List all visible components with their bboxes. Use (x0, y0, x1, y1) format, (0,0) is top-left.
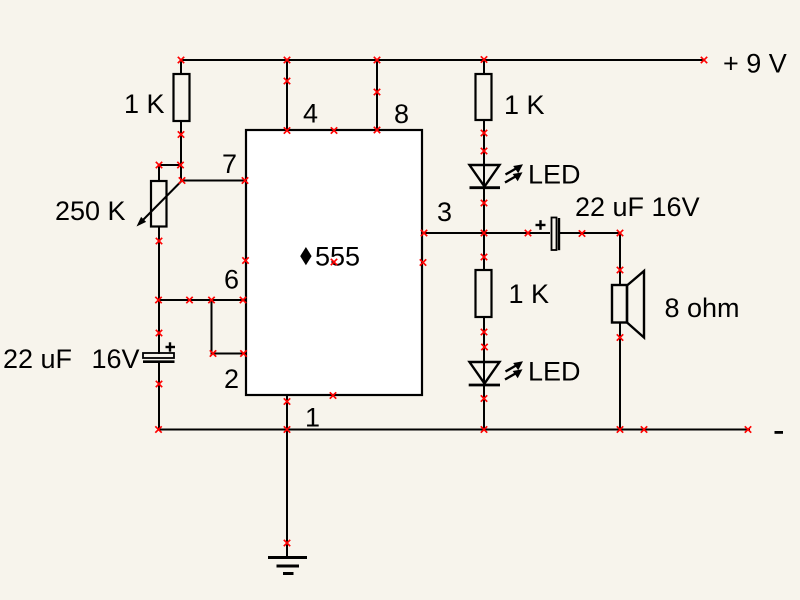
svg-text:8 ohm: 8 ohm (665, 293, 740, 323)
capacitor C1 top plate (143, 353, 174, 358)
wire top supply rail (181, 59, 703, 61)
label C2 value 22 uF 16V (575, 192, 700, 222)
capacitor C1 22uF plus sign (166, 342, 176, 351)
label R4 value 1 K (509, 279, 550, 309)
wire pin 1 to ground symbol (286, 395, 288, 558)
label R1 value 1 K (124, 89, 165, 119)
wire R3 bottom through LED1 to pin3 node (483, 120, 485, 233)
svg-text:6: 6 (224, 265, 239, 295)
svg-text:1 K: 1 K (509, 279, 550, 309)
wire R4 bottom through LED2 to ground rail (483, 317, 485, 431)
svg-text:1: 1 (305, 403, 320, 433)
svg-text:3: 3 (437, 197, 452, 227)
label LED D1 (528, 160, 581, 190)
svg-text:1 K: 1 K (124, 89, 165, 119)
svg-text:7: 7 (222, 149, 237, 179)
svg-text:LED: LED (528, 357, 581, 387)
LED D1 cathode bar (470, 186, 501, 189)
svg-text:+ 9 V: + 9 V (723, 49, 787, 79)
label LED D2 (528, 357, 581, 387)
wire pin 7 (181, 180, 246, 182)
capacitor C2 right plate (558, 218, 560, 250)
wire pin 4 (286, 60, 288, 131)
LED D2 cathode bar (469, 384, 500, 387)
LED D1 light arrows (505, 164, 523, 182)
wire bottom ground rail (158, 429, 750, 431)
wire rail to R1 top (180, 59, 182, 75)
potentiometer R2 wiper arrow (137, 181, 183, 227)
wire rail to R3 top (483, 59, 485, 75)
svg-text:22 uF 16V: 22 uF 16V (575, 192, 700, 222)
IC U1 part number 555 (315, 242, 360, 272)
wire pin 2 branch (212, 300, 247, 354)
pin label 1 (305, 403, 320, 433)
svg-text:22 uF: 22 uF (3, 344, 72, 374)
wire pin 8 (376, 60, 378, 131)
wire R1 bottom to pin7 junction (180, 121, 182, 181)
capacitor C2 left plate (552, 218, 557, 251)
LED D1 triangle (470, 165, 500, 187)
wire pin 3 (423, 232, 550, 234)
pin label 8 (394, 99, 409, 129)
net label + 9 V (723, 49, 787, 79)
wire C2 to speaker (619, 233, 621, 285)
svg-text:16V: 16V (92, 344, 140, 374)
label R3 value 1 K (504, 90, 545, 120)
label C1 value 22 uF 16V (3, 344, 140, 374)
capacitor C1 bottom plate (143, 360, 175, 363)
svg-text:1 K: 1 K (504, 90, 545, 120)
wire speaker bottom to ground rail (619, 323, 621, 431)
svg-text:555: 555 (315, 242, 360, 272)
label speaker 8 ohm (665, 293, 740, 323)
resistor R1 1K (174, 74, 190, 121)
wire pin3 node to R4 top (483, 233, 485, 271)
wire potentiometer bottom to C1 (158, 227, 160, 355)
svg-text:4: 4 (303, 99, 318, 129)
potentiometer R2 250K body (151, 181, 167, 227)
svg-text:250 K: 250 K (55, 196, 126, 226)
wire jog to potentiometer top (159, 165, 181, 181)
svg-text:2: 2 (224, 364, 239, 394)
pin label 6 (224, 265, 239, 295)
resistor R3 1K (476, 74, 492, 120)
resistor R4 1K (476, 270, 492, 317)
pin label 7 (222, 149, 237, 179)
speaker LS1 body (612, 285, 627, 323)
pin label 3 (437, 197, 452, 227)
IC U1 555 body (246, 130, 422, 395)
LED D2 light arrows (505, 361, 523, 379)
wire C1 bottom to ground rail (158, 362, 160, 431)
LED D2 triangle (470, 362, 500, 384)
svg-text:LED: LED (528, 160, 581, 190)
speaker LS1 cone (627, 271, 644, 338)
IC U1 diamond marker (300, 247, 311, 265)
net label minus (775, 431, 784, 434)
pin label 2 (224, 364, 239, 394)
capacitor C2 plus sign (536, 220, 546, 230)
wire pin 6 (158, 299, 246, 301)
label pin3 node wire to C2 (560, 232, 620, 234)
pin label 4 (303, 99, 318, 129)
svg-text:8: 8 (394, 99, 409, 129)
label R2 value 250 K (55, 196, 126, 226)
node junction marks (155, 56, 751, 546)
ground symbol (268, 558, 307, 574)
